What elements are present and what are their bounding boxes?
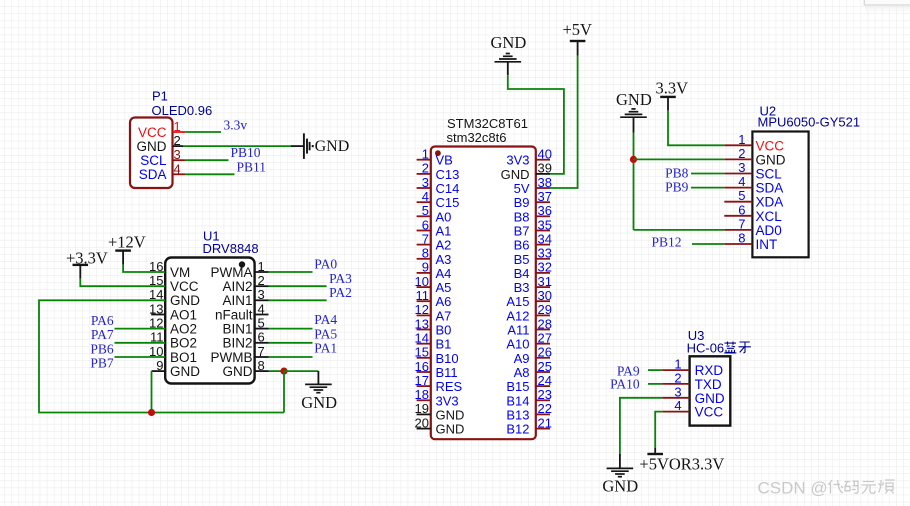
svg-text:SDA: SDA: [139, 167, 167, 182]
STM32 pin 30 stub: [536, 300, 550, 302]
STM32 pin 26 stub: [536, 357, 550, 359]
U2 pin 6 stub: [724, 215, 752, 217]
sensor U2 body: [752, 132, 808, 258]
STM32 pin 1 stub: [417, 159, 431, 161]
svg-text:GND: GND: [756, 152, 786, 167]
svg-text:4: 4: [174, 161, 181, 176]
svg-text:PA2: PA2: [329, 285, 352, 300]
svg-text:1: 1: [738, 132, 745, 147]
STM32 pin 8 stub: [417, 258, 431, 260]
wire ground to STM32 pin39: [508, 75, 564, 174]
svg-text:B10: B10: [436, 351, 459, 366]
svg-text:MPU6050-GY521: MPU6050-GY521: [758, 115, 861, 130]
STM32 pin 25 stub: [536, 371, 550, 373]
svg-text:C13: C13: [436, 167, 460, 182]
svg-text:12: 12: [415, 302, 429, 317]
svg-text:VB: VB: [436, 153, 453, 168]
svg-text:stm32c8t6: stm32c8t6: [447, 130, 507, 145]
STM32 pin 34 stub: [536, 244, 550, 246]
wire U1 pin1 PA0: [269, 271, 313, 273]
STM32 pin 40 stub: [536, 159, 550, 161]
svg-text:TXD: TXD: [695, 377, 722, 392]
svg-text:8: 8: [422, 246, 429, 261]
svg-text:B0: B0: [436, 323, 452, 338]
STM32 pin 31 stub: [536, 286, 550, 288]
U1 right pin 4 stub: [255, 314, 269, 316]
svg-text:nFault: nFault: [215, 307, 253, 322]
wire U1 pin3 PA2: [269, 299, 327, 301]
U2 pin 7 stub: [724, 229, 752, 231]
wire 3.3V to U2 pin1 VCC: [668, 111, 724, 146]
svg-text:DRV8848: DRV8848: [203, 241, 259, 256]
STM32 pin 12 stub: [417, 314, 431, 316]
mcu U? STM32 body: [431, 147, 536, 440]
junction: [280, 368, 287, 375]
svg-text:2: 2: [674, 370, 681, 385]
wire PA9 to U3 pin1: [648, 369, 662, 371]
wire +12V to U1 pin16: [123, 265, 165, 272]
svg-text:VCC: VCC: [170, 279, 199, 294]
U2 pin 3 stub: [724, 173, 752, 175]
svg-text:3.3V: 3.3V: [656, 79, 689, 98]
svg-text:6: 6: [422, 217, 429, 232]
svg-text:1: 1: [174, 119, 181, 134]
power +5V lead: [577, 41, 579, 56]
wire U1 pin6 PA5: [269, 342, 313, 344]
STM32 pin 39 stub: [536, 173, 550, 175]
power 3.3V bar: [660, 96, 676, 98]
svg-text:38: 38: [538, 175, 552, 190]
svg-text:A9: A9: [514, 351, 530, 366]
U2 pin 5 stub: [724, 201, 752, 203]
wire U1 pin2 PA3: [269, 285, 327, 287]
STM32 pin 20 stub: [417, 428, 431, 430]
svg-text:29: 29: [538, 302, 552, 317]
svg-text:26: 26: [538, 345, 552, 360]
wire to ground: [284, 370, 318, 372]
junction: [148, 409, 155, 416]
svg-text:3: 3: [174, 147, 181, 162]
svg-text:34: 34: [538, 231, 552, 246]
svg-text:C15: C15: [436, 195, 460, 210]
wire PB8 to U2 pin3: [691, 173, 724, 175]
ground GND (chassis right): [304, 133, 314, 159]
wire U1 pin14 GND rail: [39, 300, 284, 412]
P1 pin 4 stub: [173, 173, 186, 175]
U1 right pin 2 stub: [255, 285, 269, 287]
svg-text:STM32C8T61: STM32C8T61: [447, 116, 528, 131]
svg-text:PA10: PA10: [610, 377, 640, 392]
svg-text:19: 19: [415, 401, 429, 416]
svg-text:B5: B5: [514, 252, 530, 267]
ground GND below U3: [607, 468, 634, 476]
svg-text:3V3: 3V3: [506, 153, 529, 168]
U1 right pin 6 stub: [255, 342, 269, 344]
svg-text:25: 25: [538, 359, 552, 374]
svg-text:SDA: SDA: [756, 181, 784, 196]
STM32 pin 14 stub: [417, 343, 431, 345]
svg-text:A7: A7: [436, 308, 452, 323]
svg-text:A3: A3: [436, 252, 452, 267]
module U3 body: [690, 356, 731, 425]
svg-text:B12: B12: [506, 422, 529, 437]
STM32 pin 1 marker dot: [435, 150, 441, 156]
svg-text:1: 1: [422, 147, 429, 162]
wire U1 pin9 to rail: [151, 371, 153, 412]
STM32 pin 23 stub: [536, 399, 550, 401]
STM32 pin 6 stub: [417, 230, 431, 232]
svg-text:PB8: PB8: [665, 166, 689, 181]
svg-text:5: 5: [422, 203, 429, 218]
svg-text:B7: B7: [514, 224, 530, 239]
svg-text:14: 14: [415, 331, 429, 346]
svg-text:HC-06: HC-06: [687, 341, 725, 356]
wire pin2 to ground: [183, 145, 291, 147]
svg-text:RXD: RXD: [695, 363, 724, 378]
STM32 pin 33 stub: [536, 258, 550, 260]
svg-text:3V3: 3V3: [436, 393, 459, 408]
svg-text:GND: GND: [223, 364, 253, 379]
svg-text:1: 1: [674, 357, 681, 372]
STM32 pin 28 stub: [536, 329, 550, 331]
power +5V bar: [570, 40, 586, 42]
svg-text:4: 4: [422, 189, 429, 204]
U1 right pin 5 stub: [255, 328, 269, 330]
STM32 pin 17 stub: [417, 385, 431, 387]
svg-text:+12V: +12V: [108, 232, 146, 251]
svg-text:11: 11: [416, 288, 430, 303]
UI panel corner top-right: [864, 0, 910, 11]
svg-text:PA5: PA5: [314, 326, 337, 341]
STM32 pin 36 stub: [536, 215, 550, 217]
svg-text:A10: A10: [506, 337, 529, 352]
svg-text:30: 30: [538, 288, 552, 303]
U1 right pin 3 stub: [255, 299, 269, 301]
svg-text:13: 13: [415, 316, 429, 331]
svg-text:BO1: BO1: [170, 350, 197, 365]
svg-text:OLED0.96: OLED0.96: [152, 103, 213, 118]
svg-text:+5V: +5V: [563, 20, 593, 39]
svg-text:31: 31: [538, 274, 552, 289]
P1 pin 1 stub: [173, 131, 186, 133]
svg-text:3: 3: [674, 384, 681, 399]
power +12V lead: [122, 251, 124, 265]
STM32 pin 9 stub: [417, 272, 431, 274]
wire +3.3V to U1 pin15: [80, 279, 165, 287]
STM32 pin 21 stub: [536, 428, 550, 430]
wire +5V to STM32 pin38: [550, 56, 578, 188]
op-chip U1 body: [165, 258, 254, 384]
svg-text:17: 17: [415, 373, 429, 388]
ground lead: [291, 145, 304, 147]
svg-text:B9: B9: [514, 195, 530, 210]
svg-text:A4: A4: [436, 266, 452, 281]
svg-text:AD0: AD0: [756, 223, 782, 238]
svg-text:VM: VM: [170, 265, 190, 280]
svg-text:4: 4: [738, 174, 745, 189]
svg-text:GND: GND: [501, 167, 530, 182]
STM32 pin 32 stub: [536, 272, 550, 274]
STM32 pin 19 stub: [417, 413, 431, 415]
svg-text:PA0: PA0: [314, 257, 337, 272]
svg-text:+5VOR3.3V: +5VOR3.3V: [639, 455, 724, 474]
wire to U2 pin7 AD0: [634, 229, 725, 231]
svg-text:A2: A2: [436, 238, 452, 253]
svg-text:PA7: PA7: [91, 327, 114, 342]
svg-text:40: 40: [538, 147, 552, 162]
svg-text:C14: C14: [436, 181, 460, 196]
svg-text:B14: B14: [506, 393, 529, 408]
STM32 pin 2 stub: [417, 173, 431, 175]
STM32 pin 29 stub: [536, 314, 550, 316]
svg-text:GND: GND: [315, 138, 350, 155]
svg-text:AO1: AO1: [170, 307, 197, 322]
svg-text:5V: 5V: [514, 181, 530, 196]
svg-text:37: 37: [538, 189, 552, 204]
svg-text:B4: B4: [514, 266, 530, 281]
STM32 pin 4 stub: [417, 201, 431, 203]
power 3.3V lead: [667, 97, 669, 111]
STM32 pin 27 stub: [536, 343, 550, 345]
svg-text:7: 7: [738, 216, 745, 231]
svg-text:2: 2: [422, 161, 429, 176]
power +5VOR3.3V bar: [647, 453, 663, 455]
U1 pin 13 stub: [151, 314, 165, 316]
svg-text:23: 23: [538, 387, 552, 402]
svg-text:VCC: VCC: [695, 405, 724, 420]
U1 pin 9 stub: [152, 370, 166, 372]
svg-text:GND: GND: [137, 139, 167, 154]
svg-text:GND: GND: [301, 393, 337, 412]
wire U3 pin4 to power: [655, 412, 662, 448]
U2 pin 4 stub: [724, 187, 752, 189]
ground above U2 net: [620, 109, 647, 117]
junction: [630, 156, 637, 163]
svg-text:PB12: PB12: [651, 235, 681, 250]
svg-text:PA3: PA3: [329, 271, 352, 286]
connector P1 body: [130, 118, 173, 189]
svg-text:P1: P1: [152, 89, 168, 104]
ground above STM32: [495, 54, 522, 62]
svg-text:27: 27: [538, 331, 552, 346]
U3 pin 3 stub: [662, 397, 689, 399]
svg-text:A11: A11: [507, 323, 529, 338]
P1 pin 3 stub: [173, 159, 186, 161]
svg-text:B8: B8: [514, 209, 530, 224]
power +3.3V bar: [73, 264, 89, 266]
svg-text:9: 9: [422, 260, 429, 275]
U3 pin 1 stub: [662, 369, 689, 371]
ground lead: [633, 117, 635, 132]
svg-text:B13: B13: [506, 407, 529, 422]
ground lead: [317, 371, 319, 384]
svg-text:GND: GND: [491, 33, 527, 52]
svg-text:7: 7: [422, 231, 429, 246]
wire PA7 to U1: [115, 342, 166, 344]
svg-text:21: 21: [538, 415, 552, 430]
U2 pin 8 stub: [724, 243, 752, 245]
STM32 pin 13 stub: [417, 329, 431, 331]
U1 right pin 7 stub: [255, 356, 269, 358]
svg-text:16: 16: [415, 359, 429, 374]
svg-text:6: 6: [738, 202, 745, 217]
svg-text:GND: GND: [695, 391, 725, 406]
wire U1 pin7 PA1: [269, 356, 313, 358]
svg-text:BIN2: BIN2: [222, 336, 252, 351]
svg-text:SCL: SCL: [140, 153, 167, 168]
svg-text:10: 10: [415, 274, 429, 289]
svg-text:A1: A1: [436, 224, 452, 239]
svg-text:18: 18: [415, 387, 429, 402]
svg-text:AIN2: AIN2: [222, 279, 252, 294]
svg-text:20: 20: [415, 415, 429, 430]
U1 right pin 8 stub: [255, 370, 269, 372]
svg-text:BO2: BO2: [170, 336, 197, 351]
svg-text:AO2: AO2: [170, 322, 197, 337]
power lead: [654, 448, 656, 454]
wire junction down to rail: [283, 371, 285, 412]
svg-text:PWMB: PWMB: [211, 350, 253, 365]
svg-text:VCC: VCC: [138, 125, 167, 140]
U3 pin 2 stub: [662, 383, 689, 385]
svg-text:PB11: PB11: [237, 159, 267, 174]
svg-text:SCL: SCL: [756, 167, 783, 182]
wire pin1 to 3.3v: [186, 131, 221, 133]
svg-text:PB9: PB9: [665, 179, 689, 194]
ground lead: [619, 454, 621, 468]
svg-text:PB6: PB6: [90, 341, 114, 356]
power +12V bar: [115, 249, 131, 251]
svg-text:XDA: XDA: [756, 195, 784, 210]
wire PB9 to U2 pin4: [691, 187, 724, 189]
wire PA6 to U1: [115, 328, 166, 330]
U2 pin 2 stub: [724, 158, 752, 160]
svg-text:GND: GND: [616, 90, 652, 109]
svg-text:PA1: PA1: [314, 340, 337, 355]
P1 pin 2 stub: [173, 145, 183, 147]
wire U1 pin5 PA4: [269, 328, 313, 330]
svg-text:B6: B6: [514, 238, 530, 253]
STM32 pin 38 stub: [536, 187, 550, 189]
svg-text:XCL: XCL: [756, 209, 783, 224]
STM32 pin 37 stub: [536, 201, 550, 203]
wire PA10 to U3 pin2: [648, 383, 662, 385]
svg-text:RES: RES: [436, 379, 463, 394]
svg-text:AIN1: AIN1: [222, 293, 252, 308]
U3 pin 4 stub: [662, 411, 689, 413]
STM32 pin 22 stub: [536, 413, 550, 415]
svg-text:GND: GND: [170, 364, 200, 379]
wire ground down: [633, 133, 635, 230]
STM32 pin 10 stub: [417, 286, 431, 288]
svg-text:VCC: VCC: [756, 138, 785, 153]
svg-text:35: 35: [538, 217, 552, 232]
svg-text:A0: A0: [436, 209, 452, 224]
svg-text:A12: A12: [506, 308, 529, 323]
svg-text:15: 15: [415, 345, 429, 360]
wire U3 pin3 to ground: [620, 398, 662, 454]
wire U1 pin8: [269, 370, 285, 372]
svg-text:A6: A6: [436, 294, 452, 309]
svg-text:3: 3: [738, 160, 745, 175]
U2 pin 1 stub: [724, 144, 752, 146]
U1 pin 1 marker dot: [239, 261, 245, 267]
svg-text:4: 4: [674, 398, 681, 413]
svg-text:32: 32: [538, 260, 552, 275]
svg-text:B15: B15: [506, 379, 529, 394]
svg-text:GND: GND: [602, 476, 638, 495]
power +3.3V lead: [79, 265, 81, 279]
STM32 pin 5 stub: [417, 215, 431, 217]
wire PB6 to U1: [115, 356, 166, 358]
STM32 pin 11 stub: [417, 300, 431, 302]
ground lead: [507, 62, 509, 75]
svg-text:33: 33: [538, 246, 552, 261]
svg-text:28: 28: [538, 316, 552, 331]
ground GND below U1: [305, 384, 332, 392]
STM32 pin 15 stub: [417, 357, 431, 359]
svg-text:8: 8: [738, 231, 745, 246]
svg-text:2: 2: [738, 146, 745, 161]
svg-text:39: 39: [538, 161, 552, 176]
svg-text:GND: GND: [170, 293, 200, 308]
svg-text:5: 5: [738, 188, 745, 203]
svg-text:A8: A8: [514, 365, 530, 380]
svg-text:PB7: PB7: [90, 356, 114, 371]
svg-text:PB10: PB10: [231, 145, 261, 160]
U1 right pin 1 stub: [255, 271, 269, 273]
svg-text:A15: A15: [506, 294, 529, 309]
svg-text:3.3v: 3.3v: [224, 118, 248, 133]
svg-text:GND: GND: [436, 422, 465, 437]
STM32 pin 16 stub: [417, 371, 431, 373]
svg-text:36: 36: [538, 203, 552, 218]
svg-text:2: 2: [174, 133, 181, 148]
svg-text:B3: B3: [514, 280, 530, 295]
STM32 pin 7 stub: [417, 244, 431, 246]
svg-text:B11: B11: [436, 365, 458, 380]
wire pin4 to PB11: [186, 173, 235, 175]
svg-text:PWMA: PWMA: [211, 265, 253, 280]
wire PB12 to U2 pin8: [692, 243, 724, 245]
svg-text:PA6: PA6: [91, 313, 114, 328]
svg-text:INT: INT: [756, 237, 778, 252]
svg-text:24: 24: [538, 373, 552, 388]
STM32 pin 24 stub: [536, 385, 550, 387]
svg-text:BIN1: BIN1: [222, 322, 252, 337]
wire pin3 to PB10: [186, 159, 229, 161]
svg-text:22: 22: [538, 401, 552, 416]
STM32 pin 35 stub: [536, 230, 550, 232]
svg-text:GND: GND: [436, 407, 465, 422]
svg-text:3: 3: [422, 175, 429, 190]
svg-text:CSDN @: CSDN @: [758, 479, 828, 498]
wire to U2 pin2 GND: [634, 158, 725, 160]
STM32 pin 3 stub: [417, 187, 431, 189]
svg-text:B1: B1: [436, 337, 452, 352]
svg-text:A5: A5: [436, 280, 452, 295]
STM32 pin 18 stub: [417, 399, 431, 401]
svg-text:PA4: PA4: [314, 312, 337, 327]
